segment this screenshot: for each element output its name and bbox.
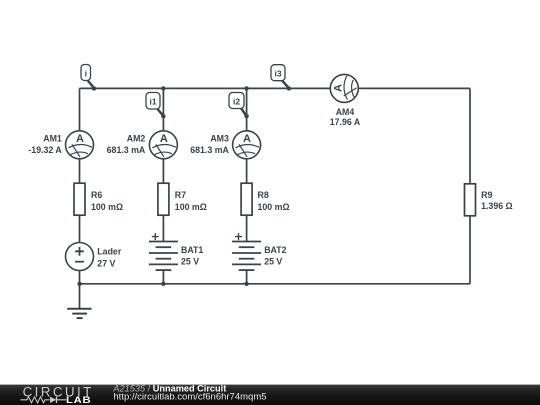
svg-text:i2: i2 (233, 97, 240, 107)
svg-text:A: A (243, 133, 251, 145)
svg-text:i1: i1 (149, 97, 156, 107)
svg-text:17.96 A: 17.96 A (330, 117, 361, 127)
svg-text:25 V: 25 V (181, 257, 199, 267)
svg-text:681.3 mA: 681.3 mA (190, 145, 229, 155)
svg-text:i3: i3 (274, 69, 281, 79)
svg-text:A: A (76, 133, 84, 145)
svg-text:AM2: AM2 (127, 133, 146, 143)
svg-text:-19.32 A: -19.32 A (28, 145, 62, 155)
svg-text:A: A (160, 133, 168, 145)
svg-text:R6: R6 (91, 190, 102, 200)
svg-text:Lader: Lader (97, 247, 122, 257)
svg-text:27 V: 27 V (97, 259, 115, 269)
svg-text:http://circuitlab.com/cf6n6hr7: http://circuitlab.com/cf6n6hr74mqm5 (113, 392, 266, 403)
svg-text:BAT2: BAT2 (264, 245, 286, 255)
svg-text:100 mΩ: 100 mΩ (91, 202, 123, 212)
svg-text:LAB: LAB (66, 396, 91, 405)
svg-text:R9: R9 (481, 190, 492, 200)
svg-text:A: A (332, 84, 344, 92)
svg-text:i: i (85, 69, 87, 79)
svg-text:681.3 mA: 681.3 mA (107, 145, 146, 155)
svg-text:1.396 Ω: 1.396 Ω (481, 201, 513, 211)
svg-text:AM4: AM4 (336, 107, 355, 117)
svg-text:100 mΩ: 100 mΩ (175, 202, 207, 212)
svg-text:R8: R8 (258, 190, 269, 200)
svg-text:R7: R7 (175, 190, 186, 200)
svg-text:25 V: 25 V (264, 257, 282, 267)
svg-text:BAT1: BAT1 (181, 245, 203, 255)
svg-text:AM3: AM3 (210, 133, 229, 143)
svg-text:100 mΩ: 100 mΩ (258, 202, 290, 212)
svg-text:AM1: AM1 (43, 133, 62, 143)
